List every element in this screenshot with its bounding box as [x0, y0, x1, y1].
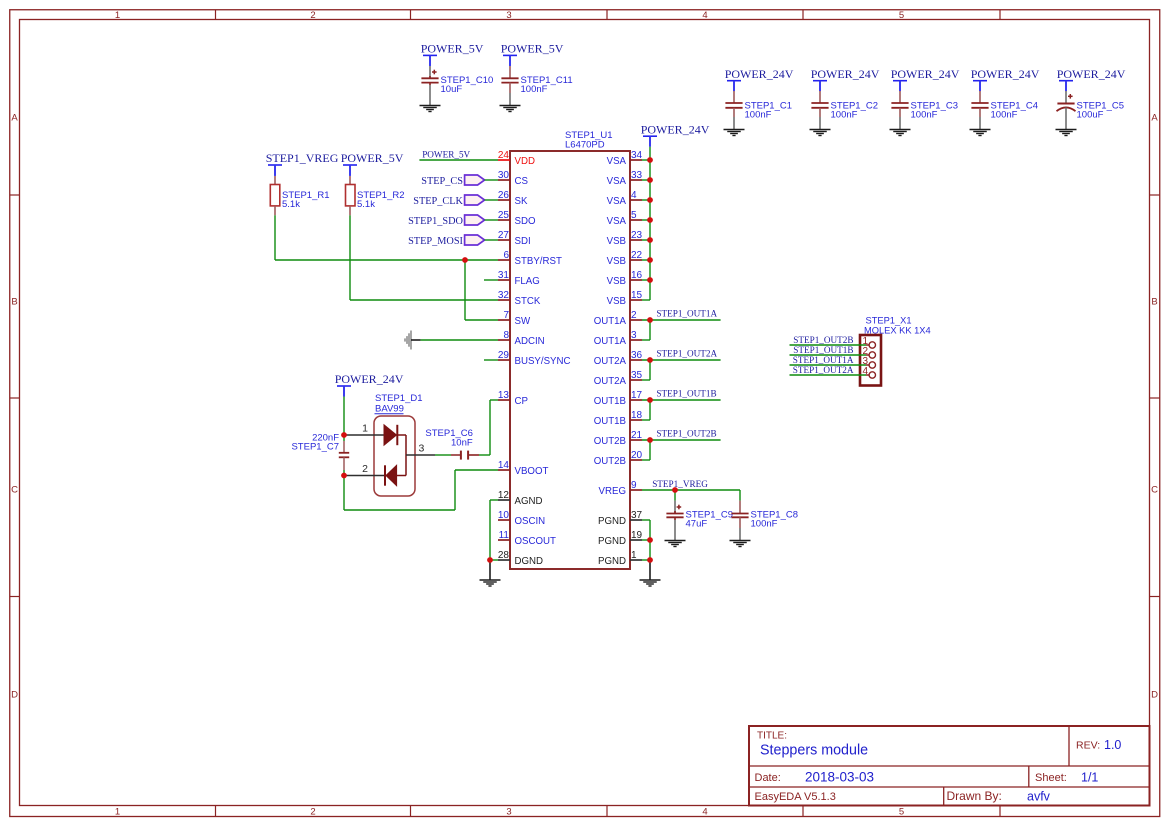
junction STEP1_OUT1A — [647, 317, 653, 323]
U1 pin 20 OUT2B — [630, 459, 642, 461]
port STEP_MOSI — [465, 235, 485, 245]
D1 pin 1 — [347, 434, 385, 436]
svg-text:5: 5 — [631, 210, 637, 221]
svg-text:5: 5 — [899, 10, 904, 21]
resistor R1 5.1k — [274, 165, 276, 176]
junction VSA/VSB rail y=180 — [647, 177, 653, 183]
svg-text:32: 32 — [498, 290, 510, 301]
svg-text:VSB: VSB — [607, 236, 626, 247]
X1 pin 2 net STEP1_OUT1B — [790, 354, 867, 356]
svg-text:POWER_24V: POWER_24V — [1057, 67, 1126, 81]
svg-text:47uF: 47uF — [686, 519, 708, 530]
svg-text:STEP1_OUT2A: STEP1_OUT2A — [793, 365, 854, 375]
U1 pin 15 VSB — [630, 299, 642, 301]
svg-text:1: 1 — [362, 423, 368, 435]
svg-text:5.1k: 5.1k — [357, 199, 375, 210]
svg-text:2: 2 — [362, 463, 368, 475]
wire STEP1_SDO to pin — [485, 219, 498, 221]
svg-text:25: 25 — [498, 210, 510, 221]
svg-text:8: 8 — [503, 330, 509, 341]
svg-text:Date:: Date: — [755, 772, 781, 784]
U1 pin 7 SW — [498, 319, 510, 321]
svg-text:18: 18 — [631, 410, 643, 421]
svg-text:AGND: AGND — [515, 496, 543, 507]
svg-text:3: 3 — [506, 807, 511, 818]
svg-text:1: 1 — [115, 10, 120, 21]
svg-text:OSCIN: OSCIN — [515, 516, 546, 527]
svg-text:34: 34 — [631, 150, 643, 161]
ground (C11) — [500, 105, 521, 107]
svg-text:12: 12 — [498, 490, 510, 501]
svg-text:20: 20 — [631, 450, 643, 461]
svg-text:VSA: VSA — [607, 216, 627, 227]
U1 pin 35 OUT2A — [630, 379, 642, 381]
U1 pin 3 OUT1A — [630, 339, 642, 341]
svg-text:C: C — [11, 485, 18, 496]
svg-text:D: D — [11, 690, 18, 701]
svg-text:avfv: avfv — [1027, 790, 1051, 804]
svg-text:27: 27 — [498, 230, 510, 241]
U1 pin 28 DGND — [498, 559, 510, 561]
title block — [749, 726, 1150, 806]
svg-text:BAV99: BAV99 — [375, 404, 404, 415]
svg-text:36: 36 — [631, 350, 643, 361]
svg-text:10: 10 — [498, 510, 510, 521]
wire R1 to STBY/RST — [274, 215, 276, 260]
svg-text:24: 24 — [498, 150, 510, 161]
svg-text:B: B — [1151, 297, 1157, 308]
U1 pin 11 OSCOUT — [498, 539, 510, 541]
svg-text:29: 29 — [498, 350, 510, 361]
svg-text:15: 15 — [631, 290, 643, 301]
svg-text:VSA: VSA — [607, 156, 627, 167]
svg-text:POWER_24V: POWER_24V — [891, 67, 960, 81]
svg-text:14: 14 — [498, 460, 510, 471]
U1 pin 27 SDI — [498, 239, 510, 241]
svg-text:VSB: VSB — [607, 276, 626, 287]
svg-text:TITLE:: TITLE: — [757, 731, 787, 742]
junction VSA/VSB rail y=200 — [647, 197, 653, 203]
svg-text:13: 13 — [498, 390, 510, 401]
X1 pin 1 net STEP1_OUT2B — [790, 344, 867, 346]
junction STBY/RST node — [462, 257, 468, 263]
svg-text:STEP1_OUT1A: STEP1_OUT1A — [793, 355, 854, 365]
svg-text:6: 6 — [503, 250, 509, 261]
svg-text:100nF: 100nF — [991, 109, 1018, 120]
D1 diode A (points right) — [384, 425, 397, 445]
wire PGND rail — [642, 519, 650, 521]
svg-text:STEP1_X1: STEP1_X1 — [866, 315, 912, 325]
U1 pin 17 OUT1B — [630, 399, 642, 401]
ground (STEP1_C2) — [810, 129, 831, 131]
svg-text:9: 9 — [631, 480, 637, 491]
svg-text:35: 35 — [631, 370, 643, 381]
svg-text:OUT1A: OUT1A — [594, 336, 627, 347]
ground (DGND) — [489, 560, 491, 580]
svg-text:4: 4 — [862, 366, 868, 377]
U1 pin 10 OSCIN — [498, 519, 510, 521]
svg-text:4: 4 — [631, 190, 637, 201]
ground (ADCIN) — [410, 331, 412, 350]
wire STEP_MOSI to pin — [485, 239, 498, 241]
junction DGND — [487, 557, 493, 563]
svg-text:2018-03-03: 2018-03-03 — [805, 770, 874, 785]
ground (STEP1_C4) — [970, 129, 991, 131]
junction STEP1_OUT2A — [647, 357, 653, 363]
svg-text:STEP1_OUT2B: STEP1_OUT2B — [793, 335, 853, 345]
U1 pin 1 PGND — [630, 559, 642, 561]
capacitor STEP1_C4 — [979, 81, 981, 91]
svg-text:STEP1_D1: STEP1_D1 — [375, 393, 423, 404]
port STEP_CS — [465, 175, 485, 185]
svg-text:STCK: STCK — [515, 296, 541, 307]
svg-text:STEP1_OUT1B: STEP1_OUT1B — [656, 389, 716, 399]
svg-text:19: 19 — [631, 530, 643, 541]
svg-text:100nF: 100nF — [745, 109, 772, 120]
svg-text:POWER_24V: POWER_24V — [725, 67, 794, 81]
U1 pin 12 AGND — [498, 499, 510, 501]
svg-text:3: 3 — [506, 10, 511, 21]
wire R2 to STCK — [349, 215, 351, 300]
svg-text:Drawn By:: Drawn By: — [947, 789, 1002, 803]
U1 pin 30 CS — [498, 179, 510, 181]
svg-text:POWER_5V: POWER_5V — [501, 42, 564, 56]
net STEP1_OUT1B wire — [642, 399, 721, 401]
net STEP1_VREG wire — [642, 489, 740, 491]
ground (PGND) — [649, 560, 651, 580]
svg-text:3: 3 — [631, 330, 637, 341]
junction PGND 1 — [647, 557, 653, 563]
capacitor C8 100nF — [739, 490, 741, 501]
svg-text:D: D — [1151, 690, 1158, 701]
svg-text:30: 30 — [498, 170, 510, 181]
U1 pin 25 SDO — [498, 219, 510, 221]
svg-text:EasyEDA V5.1.3: EasyEDA V5.1.3 — [755, 791, 836, 803]
ground (STEP1_C5) — [1056, 129, 1077, 131]
wire ADCIN — [421, 339, 498, 341]
svg-text:31: 31 — [498, 270, 510, 281]
svg-text:Steppers module: Steppers module — [760, 743, 868, 759]
svg-text:SDO: SDO — [515, 216, 536, 227]
svg-text:PGND: PGND — [598, 536, 626, 547]
svg-text:OUT1B: OUT1B — [594, 416, 626, 427]
D1 diode B (points left) — [386, 465, 397, 485]
wire C7 bottom to VBOOT — [343, 476, 345, 511]
svg-text:STEP1_C7: STEP1_C7 — [291, 442, 339, 453]
svg-text:16: 16 — [631, 270, 643, 281]
ground (STEP1_C1) — [724, 129, 745, 131]
ground (C10) — [420, 105, 441, 107]
svg-text:OUT1B: OUT1B — [594, 396, 626, 407]
U1 pin 8 ADCIN — [498, 339, 510, 341]
wire junction to SW — [464, 260, 466, 320]
svg-text:2: 2 — [631, 310, 637, 321]
wire C6 to CP — [479, 454, 490, 456]
svg-text:CP: CP — [515, 396, 528, 407]
svg-text:26: 26 — [498, 190, 510, 201]
svg-text:100nF: 100nF — [751, 519, 778, 530]
svg-text:PGND: PGND — [598, 516, 626, 527]
svg-text:STEP1_VREG: STEP1_VREG — [652, 479, 708, 489]
svg-text:SK: SK — [515, 196, 528, 207]
junction VSA/VSB rail y=160 — [647, 157, 653, 163]
svg-text:FLAG: FLAG — [515, 276, 540, 287]
net STEP1_OUT1A wire — [642, 319, 721, 321]
U1 pin 23 VSB — [630, 239, 642, 241]
U1 pin 5 VSA — [630, 219, 642, 221]
svg-text:STEP1_OUT1B: STEP1_OUT1B — [793, 345, 853, 355]
svg-text:DGND: DGND — [515, 556, 544, 567]
svg-text:100nF: 100nF — [911, 109, 938, 120]
svg-text:SW: SW — [515, 316, 531, 327]
svg-text:VSA: VSA — [607, 176, 627, 187]
svg-text:POWER_24V: POWER_24V — [335, 372, 404, 386]
D1 pin 2 — [347, 475, 386, 477]
svg-text:VSB: VSB — [607, 256, 626, 267]
svg-text:28: 28 — [498, 550, 510, 561]
U1 pin 26 SK — [498, 199, 510, 201]
junction STEP1_OUT2B — [647, 437, 653, 443]
junction node pin1/C7 — [341, 432, 347, 438]
svg-text:VDD: VDD — [515, 156, 535, 167]
U1 pin 16 VSB — [630, 279, 642, 281]
svg-text:ADCIN: ADCIN — [515, 336, 545, 347]
U1 pin 14 VBOOT — [498, 469, 510, 471]
svg-text:OUT2A: OUT2A — [594, 356, 627, 367]
X1 pin 3 net STEP1_OUT1A — [790, 364, 867, 366]
junction node pin2/C7 — [341, 473, 347, 479]
svg-text:STEP1_SDO: STEP1_SDO — [408, 216, 463, 227]
svg-text:C: C — [1151, 485, 1158, 496]
svg-text:A: A — [1151, 113, 1158, 124]
U1 pin 22 VSB — [630, 259, 642, 261]
net STEP1_OUT2A wire — [642, 359, 721, 361]
svg-text:REV:: REV: — [1076, 740, 1100, 752]
U1 pin 34 VSA — [630, 159, 642, 161]
junction VSA/VSB rail y=240 — [647, 237, 653, 243]
net STEP1_OUT2B wire — [642, 439, 721, 441]
U1 pin 6 STBY/RST — [498, 259, 510, 261]
svg-text:100nF: 100nF — [521, 84, 548, 95]
svg-text:POWER_24V: POWER_24V — [971, 67, 1040, 81]
svg-text:100nF: 100nF — [831, 109, 858, 120]
svg-text:B: B — [11, 297, 17, 308]
svg-text:3: 3 — [419, 443, 425, 455]
svg-text:1/1: 1/1 — [1081, 771, 1098, 785]
U1 pin 18 OUT1B — [630, 419, 642, 421]
capacitor C9 47uF polarized — [674, 490, 676, 501]
svg-text:5: 5 — [899, 807, 904, 818]
svg-text:POWER_5V: POWER_5V — [341, 151, 404, 165]
U1 pin 24 VDD — [498, 159, 510, 161]
U1 pin 13 CP — [498, 399, 510, 401]
svg-text:2: 2 — [310, 807, 315, 818]
svg-text:23: 23 — [631, 230, 643, 241]
junction VSA/VSB rail y=280 — [647, 277, 653, 283]
capacitor STEP1_C3 — [899, 81, 901, 91]
svg-text:STBY/RST: STBY/RST — [515, 256, 562, 267]
U1 pin 19 PGND — [630, 539, 642, 541]
capacitor STEP1_C2 — [819, 81, 821, 91]
frame column ticks — [215, 10, 217, 20]
U1 pin 31 FLAG — [498, 279, 510, 281]
wire STEP_CS to pin — [485, 179, 498, 181]
capacitor C11 — [509, 55, 511, 66]
junction VSA/VSB rail y=220 — [647, 217, 653, 223]
svg-text:7: 7 — [503, 310, 509, 321]
U1 pin 2 OUT1A — [630, 319, 642, 321]
svg-text:10nF: 10nF — [451, 438, 473, 449]
svg-text:4: 4 — [702, 10, 707, 21]
svg-text:STEP1_OUT2A: STEP1_OUT2A — [656, 349, 717, 359]
U1 pin 32 STCK — [498, 299, 510, 301]
wire VSA/VSB rail — [649, 136, 651, 147]
D1 internal wiring — [397, 434, 406, 436]
wire POWER_5V to VDD pin — [419, 159, 498, 161]
svg-text:22: 22 — [631, 250, 643, 261]
svg-text:1.0: 1.0 — [1104, 738, 1121, 752]
svg-text:STEP1_OUT1A: STEP1_OUT1A — [656, 309, 717, 319]
X1 pin 4 net STEP1_OUT2A — [790, 374, 867, 376]
U1 pin 37 PGND — [630, 519, 642, 521]
junction PGND 19 — [647, 537, 653, 543]
svg-text:2: 2 — [310, 10, 315, 21]
svg-text:37: 37 — [631, 510, 643, 521]
wire AGND to DGND — [490, 499, 498, 501]
ground (C9) — [665, 540, 686, 542]
svg-text:VREG: VREG — [599, 486, 626, 497]
svg-text:OUT2B: OUT2B — [594, 436, 626, 447]
svg-text:POWER_24V: POWER_24V — [811, 67, 880, 81]
svg-text:5.1k: 5.1k — [282, 199, 300, 210]
svg-text:Sheet:: Sheet: — [1035, 772, 1067, 784]
svg-text:1: 1 — [631, 550, 637, 561]
wire POWER_24V down to D1 pin1 — [343, 386, 345, 397]
port STEP1_SDO — [465, 215, 485, 225]
svg-text:OUT1A: OUT1A — [594, 316, 627, 327]
svg-text:POWER_5V: POWER_5V — [422, 149, 470, 159]
svg-text:STEP_CS: STEP_CS — [421, 176, 463, 187]
svg-text:100uF: 100uF — [1077, 109, 1104, 120]
port STEP_CLK — [465, 195, 485, 205]
svg-text:VSA: VSA — [607, 196, 627, 207]
U1 pin 29 BUSY/SYNC — [498, 359, 510, 361]
svg-text:PGND: PGND — [598, 556, 626, 567]
svg-text:POWER_5V: POWER_5V — [421, 42, 484, 56]
junction STEP1_OUT1B — [647, 397, 653, 403]
U1 pin 36 OUT2A — [630, 359, 642, 361]
capacitor C10 polarized — [429, 55, 431, 66]
resistor R2 5.1k — [349, 165, 351, 176]
svg-text:VSB: VSB — [607, 296, 626, 307]
junction VSA/VSB rail y=260 — [647, 257, 653, 263]
svg-text:CS: CS — [515, 176, 529, 187]
wire stub BUSY/SYNC — [484, 359, 498, 361]
U1 pin 33 VSA — [630, 179, 642, 181]
wire stub FLAG — [484, 279, 498, 281]
svg-text:STEP1_OUT2B: STEP1_OUT2B — [656, 429, 716, 439]
svg-text:OUT2B: OUT2B — [594, 456, 626, 467]
junction VREG/C9 — [672, 487, 678, 493]
svg-text:STEP1_VREG: STEP1_VREG — [266, 151, 339, 165]
svg-text:17: 17 — [631, 390, 643, 401]
svg-text:OSCOUT: OSCOUT — [515, 536, 557, 547]
svg-text:VBOOT: VBOOT — [515, 466, 549, 477]
frame row ticks — [10, 194, 20, 196]
svg-text:STEP_CLK: STEP_CLK — [413, 196, 463, 207]
svg-text:21: 21 — [631, 430, 643, 441]
svg-text:1: 1 — [115, 807, 120, 818]
ground (STEP1_C3) — [890, 129, 911, 131]
D1 pin 3 — [406, 454, 435, 456]
svg-text:4: 4 — [702, 807, 707, 818]
capacitor C7 220nF — [343, 435, 345, 441]
svg-text:POWER_24V: POWER_24V — [641, 122, 710, 136]
wire STEP_CLK to pin — [485, 199, 498, 201]
U1 pin 21 OUT2B — [630, 439, 642, 441]
svg-text:A: A — [11, 113, 18, 124]
svg-text:10uF: 10uF — [441, 84, 463, 95]
svg-text:STEP_MOSI: STEP_MOSI — [408, 236, 463, 247]
svg-text:11: 11 — [499, 530, 510, 541]
U1 pin 9 VREG — [630, 489, 642, 491]
capacitor STEP1_C5 polarized — [1065, 81, 1067, 91]
svg-text:BUSY/SYNC: BUSY/SYNC — [515, 356, 571, 367]
U1 pin 4 VSA — [630, 199, 642, 201]
ground (C8) — [730, 540, 751, 542]
capacitor STEP1_C1 — [733, 81, 735, 91]
svg-text:L6470PD: L6470PD — [565, 140, 605, 151]
svg-text:SDI: SDI — [515, 236, 531, 247]
svg-text:OUT2A: OUT2A — [594, 376, 627, 387]
svg-text:33: 33 — [631, 170, 643, 181]
